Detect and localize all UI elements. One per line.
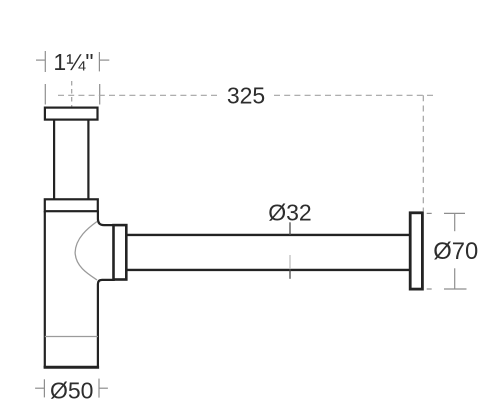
dimension 325 dashed line right part xyxy=(274,94,437,96)
bottle body right wall lower with elbow bottom xyxy=(98,280,115,367)
dimension 325 dashed line left part xyxy=(58,94,218,96)
dimension 325 vertical dashed extension to wall flange xyxy=(422,95,424,211)
bottle body left wall xyxy=(44,211,46,368)
horizontal pipe fill xyxy=(126,234,411,272)
dimension 1 1/4" extension lines xyxy=(45,84,99,105)
svg-text:Ø70: Ø70 xyxy=(433,238,478,265)
bottle body fill xyxy=(44,210,99,368)
O32 centerline inside pipe xyxy=(289,255,291,269)
top flange xyxy=(45,108,98,120)
dimension 1 1/4" dim line stubs xyxy=(36,51,109,72)
bottle body bottom xyxy=(44,366,100,369)
svg-text:Ø32: Ø32 xyxy=(268,199,311,225)
wall flange xyxy=(410,213,422,289)
elbow dome arc xyxy=(75,222,97,280)
O32 leader below pipe xyxy=(289,269,291,279)
svg-text:Ø50: Ø50 xyxy=(50,377,93,403)
bottle cap xyxy=(45,199,98,211)
horizontal pipe bottom wall xyxy=(126,269,411,271)
svg-text:1¼": 1¼" xyxy=(53,49,93,75)
centerline dashes above flange xyxy=(71,81,73,107)
compression nut xyxy=(114,225,127,279)
bottle joint thin line xyxy=(45,336,98,338)
O32 leader above pipe xyxy=(289,222,291,235)
dimension O50 dim line stubs xyxy=(35,379,108,398)
horizontal pipe top wall xyxy=(126,234,411,236)
elbow fill xyxy=(96,224,115,281)
vertical inlet pipe walls xyxy=(53,120,55,201)
vertical inlet pipe fill xyxy=(53,119,90,200)
dimension O70 bottom tick xyxy=(427,268,467,289)
bottle body right wall upper with elbow top xyxy=(98,211,115,226)
dimension O70 top tick xyxy=(427,213,465,231)
svg-text:325: 325 xyxy=(227,83,265,109)
